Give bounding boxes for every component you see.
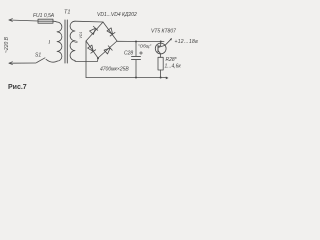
wire: transistor bottom to R28 (158, 51, 161, 58)
svg-text:С28: С28 (124, 51, 133, 57)
fuse FU1 (38, 19, 53, 23)
wire: minus drop from bridge left corner (85, 41, 87, 78)
transformer T1 core (65, 20, 67, 63)
transformer T1 secondary winding II (70, 21, 75, 60)
diode VD4 (bottom-right side) (104, 46, 112, 54)
wire: plus rail from bridge right corner (117, 40, 164, 42)
emitter lead with output arrow (158, 39, 172, 48)
wire: mains input top lead (9, 20, 38, 21)
collector lead (158, 42, 161, 47)
svg-text:~220 В: ~220 В (4, 36, 10, 53)
switch S1 (37, 58, 46, 63)
wire: bottom rail (86, 77, 167, 79)
wire: secondary top to bridge top corner (75, 20, 103, 23)
node: bridge bottom junction (97, 57, 99, 59)
node: C28 bottom junction (135, 77, 137, 79)
svg-text:S1: S1 (35, 53, 41, 59)
transistor VT5 (155, 43, 166, 54)
resistor R28 (158, 57, 163, 70)
diode VD2 (top-right side) (107, 28, 115, 36)
svg-text:VD1...VD4 КД202: VD1...VD4 КД202 (97, 12, 137, 18)
transformer T1 primary winding I (57, 22, 62, 61)
svg-text:"Общ": "Общ" (138, 44, 151, 49)
svg-text:R28*: R28* (166, 57, 178, 63)
node: R28 bottom junction (160, 77, 162, 79)
diode VD3 (left-bottom side) (87, 45, 95, 53)
capacitor C28 (135, 41, 137, 43)
svg-text:FU1 0,5A: FU1 0,5A (33, 13, 55, 19)
wire: secondary bottom to bridge bottom corner (75, 58, 98, 61)
svg-text:Т1: Т1 (64, 10, 70, 16)
svg-text:VD1: VD1 (79, 32, 83, 39)
base bar (157, 45, 159, 52)
wire: mains input bottom lead (9, 62, 36, 64)
wire: switch to primary bottom (46, 59, 57, 62)
output arrow bottom rail (166, 77, 169, 80)
svg-text:+12...18в: +12...18в (175, 39, 199, 45)
background (0, 0, 200, 95)
input arrow bottom (9, 62, 13, 65)
svg-text:4700мк×25В: 4700мк×25В (100, 67, 129, 73)
input arrow top (9, 19, 13, 22)
wire: fuse to primary (53, 20, 57, 23)
svg-text:VT5 КТ807: VT5 КТ807 (151, 29, 176, 35)
svg-text:1...4,6к: 1...4,6к (165, 64, 182, 70)
polarity plus of C28 (140, 52, 143, 55)
svg-text:Рис.7: Рис.7 (8, 84, 27, 91)
diode VD1 (left-top side) (89, 26, 97, 34)
bridge side wires (86, 22, 117, 58)
